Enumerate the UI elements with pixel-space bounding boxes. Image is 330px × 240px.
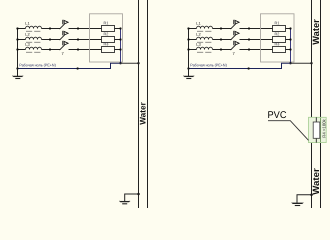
wire: right ground branch [297,195,312,203]
resistor R1 [102,21,121,31]
wire: star-point bus [120,29,122,64]
ground: right circuit earth [183,69,194,79]
node: bus-phase3 junction [16,48,18,50]
svg-text:R1: R1 [274,21,279,25]
breaker Q2 phase1 [231,20,240,29]
breaker Q1 phase3 [60,41,69,56]
ground: middle pipe earth [119,201,130,204]
node: middle pipe ground tap [137,193,140,196]
enclosure: heater block outline [90,14,123,62]
label: Water (middle pipe) [138,101,147,124]
inductor L1 [25,21,41,31]
wire: phase line 3 (right) [189,49,274,51]
wire: star-point bus (right) [290,29,292,64]
inductor L3 [25,42,41,52]
wire: middle ground branch [125,194,139,201]
wire: star point to water pipe [121,62,139,64]
svg-text:R4 >100k: R4 >100k [322,118,327,137]
svg-text:L3: L3 [196,42,201,47]
wire: left phase bus [17,29,19,69]
resistor R1 (right) [273,21,291,31]
wire: right pipe right wall [320,0,322,208]
node: star dots (right) [289,27,291,64]
PVC annotation box [309,117,327,142]
svg-text:R2: R2 [103,32,108,36]
enclosure: heater block outline (right) [261,14,295,62]
svg-text:L2: L2 [25,32,30,37]
breaker Q2 phase3 [231,41,240,56]
node: pipe junction [137,62,139,64]
node: bus-phase2 junction [16,38,18,40]
svg-text:R1: R1 [103,21,108,25]
wire: right pipe left wall [311,0,313,208]
node: right bus junctions [187,27,189,50]
svg-text:Water: Water [311,168,321,195]
wire: middle pipe left wall [138,0,140,208]
svg-text:L1: L1 [25,21,30,26]
wire: phase line 1 [18,28,103,30]
node: neutral dots (right) [187,67,249,69]
wire: star point to water pipe (right) [291,62,312,64]
svg-text:L3: L3 [25,42,30,47]
ground: left circuit earth [12,69,23,79]
breaker Q1 phase2 [60,31,69,40]
wire: neutral (Рабочая ноль) [18,63,121,68]
resistor R2 (right) [273,32,291,42]
ground: right pipe earth [292,203,304,206]
resistor R2 [102,32,121,42]
wire: phase line 2 [18,39,103,41]
node: star dots [119,27,121,64]
wire: middle pipe right wall [147,0,149,208]
svg-text:R2: R2 [274,32,279,36]
node: bus-phase1 junction [16,27,18,29]
wire: phase line 1 (right) [189,28,274,30]
inductor L1 (right) [196,21,212,31]
svg-text:L1: L1 [196,21,201,26]
node: neutral junction dots [16,67,78,69]
svg-text:Water: Water [138,101,147,124]
inductor L3 (right) [196,42,212,52]
breaker Q1 phase1 [60,20,69,29]
svg-text:R3: R3 [274,42,279,46]
inductor L2 (right) [196,32,212,42]
breaker Q2 phase2 [231,31,240,40]
node: right pipe junction [310,62,312,64]
wire: phase line 2 (right) [189,39,274,41]
node: after-coil dots [49,27,51,50]
resistor R4 (water resistance) [313,117,326,142]
node: after-breaker dots [77,27,79,50]
node: right after-breaker dots [248,27,250,50]
svg-text:Рабочая ноль (PE+N): Рабочая ноль (PE+N) [19,63,56,67]
node: right pipe ground tap [310,193,313,196]
resistor R3 (right) [273,42,291,52]
wire: neutral (right) [189,63,291,68]
svg-text:Water: Water [311,19,321,45]
wire: right phase bus [188,29,190,69]
svg-text:Рабочая ноль (PE+N): Рабочая ноль (PE+N) [190,63,227,67]
inductor L2 [25,32,41,42]
svg-text:L2: L2 [196,32,201,37]
wire: phase line 3 [18,49,103,51]
node: right after-coil dots [220,27,222,50]
resistor R3 [102,42,121,52]
label: Water (right pipe bottom) [311,168,321,195]
label: PVC with leader [267,110,308,140]
label: Water (right pipe top) [311,19,321,45]
svg-text:R3: R3 [103,42,108,46]
svg-text:PVC: PVC [267,110,286,121]
